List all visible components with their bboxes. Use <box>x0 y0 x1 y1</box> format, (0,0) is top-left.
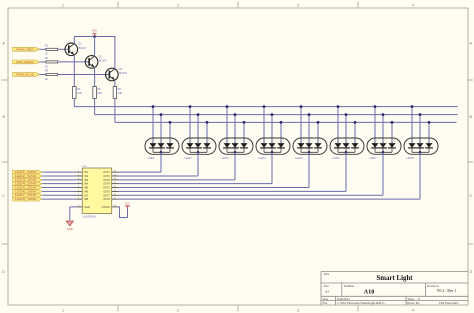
wire LED7 anode 3 drop <box>391 122 393 142</box>
node VCC junction <box>93 35 96 38</box>
svg-text:7: 7 <box>78 194 79 196</box>
svg-text:TK2 Electronics: TK2 Electronics <box>439 301 460 305</box>
resistor R1 <box>45 43 58 55</box>
wire LED5_EN to U1 pin 5 <box>42 187 76 189</box>
svg-text:Smart Light: Smart Light <box>376 275 413 282</box>
pin 12 stub <box>112 194 118 196</box>
svg-text:PWM_GREEN: PWM_GREEN <box>16 60 34 64</box>
node rail1 LED2 junction <box>189 105 192 108</box>
wire LED5 anode 3 drop <box>317 122 319 142</box>
svg-text:LED7_SINK: LED7_SINK <box>15 194 38 197</box>
pin 14 stub <box>112 186 118 188</box>
svg-text:6-09-2013: 6-09-2013 <box>337 297 350 301</box>
wire LED8 anode 2 drop <box>419 115 421 143</box>
wire R1 to Q1 base <box>58 48 69 50</box>
svg-text:COM D: COM D <box>102 206 110 209</box>
svg-text:IN5: IN5 <box>84 187 88 190</box>
transistor Q3 <box>106 67 128 81</box>
svg-text:4: 4 <box>412 308 414 312</box>
pin 5 stub <box>76 186 82 188</box>
node rail2 LED4 junction <box>271 113 274 116</box>
svg-text:IN7: IN7 <box>84 194 88 197</box>
node rail3 LED5 junction <box>317 121 320 124</box>
wire Q2 emitter to R5 <box>94 67 96 86</box>
wire LED1 anode 3 drop <box>169 122 171 142</box>
svg-text:U1: U1 <box>83 164 87 168</box>
svg-text:LED7: LED7 <box>370 156 377 160</box>
wire LED6_EN to U1 pin 6 <box>42 190 76 192</box>
node rail3 LED2 junction <box>206 121 209 124</box>
svg-text:2: 2 <box>177 3 179 7</box>
svg-text:2: 2 <box>347 140 348 142</box>
svg-text:14: 14 <box>114 186 116 188</box>
svg-text:Size: Size <box>324 284 330 288</box>
wire LED2 anode 1 drop <box>189 107 191 143</box>
LED LED2 <box>182 138 216 160</box>
wire LED1_EN to U1 pin 1 <box>42 171 76 173</box>
svg-text:3: 3 <box>356 140 357 142</box>
svg-text:BC547: BC547 <box>119 71 127 75</box>
svg-text:2: 2 <box>310 140 311 142</box>
LED LED1 <box>145 138 179 160</box>
svg-text:3: 3 <box>393 140 394 142</box>
connector PWM_GREEN <box>13 60 40 64</box>
LED LED5 <box>293 138 327 160</box>
svg-text:3: 3 <box>245 140 246 142</box>
svg-text:15: 15 <box>114 182 116 184</box>
LED LED6 <box>330 138 364 160</box>
wire VCC top rail <box>74 36 115 38</box>
svg-text:Revision: Revision <box>427 284 438 288</box>
wire LED2 cathode to OUT2 <box>118 152 198 176</box>
svg-text:1: 1 <box>62 3 64 7</box>
wire LED7 anode 2 drop <box>382 115 384 143</box>
wire LED3 anode 1 drop <box>226 107 228 143</box>
pin 16 stub <box>112 178 118 180</box>
svg-text:OUT7: OUT7 <box>103 194 110 197</box>
svg-text:GND: GND <box>84 206 90 209</box>
svg-text:LED2_SINK: LED2_SINK <box>15 175 38 178</box>
wire LED2_EN to U1 pin 2 <box>42 175 76 177</box>
power VCC at COM <box>125 201 131 208</box>
svg-text:3: 3 <box>208 140 209 142</box>
connector LED5_EN <box>13 186 43 190</box>
svg-text:Title: Title <box>324 272 330 276</box>
connector PWM_RED <box>13 47 40 51</box>
svg-text:10R: 10R <box>77 91 82 95</box>
svg-text:R1: R1 <box>45 43 49 47</box>
wire blue anode rail <box>115 121 457 123</box>
wire LED1 anode 1 drop <box>152 107 154 143</box>
svg-text:Date: Date <box>323 297 329 301</box>
pin 17 stub <box>112 174 118 176</box>
transistor Q1 <box>65 42 87 56</box>
connector LED7_EN <box>13 193 43 197</box>
wire LED8 anode 3 drop <box>428 122 430 142</box>
title block <box>321 272 468 306</box>
wire Q1 emitter to R4 <box>73 55 75 87</box>
pin 11 stub <box>112 197 118 199</box>
wire U1 GND to ground <box>70 207 77 221</box>
svg-text:R3: R3 <box>45 69 49 73</box>
pin 3 stub <box>76 178 82 180</box>
node rail1 LED7 junction <box>374 105 377 108</box>
node rail3 LED1 junction <box>169 121 172 124</box>
node rail3 LED6 junction <box>354 121 357 124</box>
svg-text:4: 4 <box>412 3 414 7</box>
wire PWM_GREEN to R2 <box>40 61 47 63</box>
svg-text:Q3: Q3 <box>119 67 123 71</box>
svg-text:ULN2803A: ULN2803A <box>83 214 96 218</box>
wire U1 COM D to VCC <box>118 207 128 218</box>
pin 2 stub <box>76 174 82 176</box>
connector LED4_EN <box>13 182 43 186</box>
svg-text:LED8: LED8 <box>407 156 414 160</box>
svg-text:2: 2 <box>421 140 422 142</box>
connector LED6_EN <box>13 190 43 194</box>
svg-text:of: of <box>418 297 421 301</box>
pin 8 stub <box>76 197 82 199</box>
node rail3 LED3 junction <box>243 121 246 124</box>
wire R5 to bus rail 2 <box>94 99 96 115</box>
svg-text:3: 3 <box>430 140 431 142</box>
svg-text:IN4: IN4 <box>84 183 88 186</box>
svg-text:3: 3 <box>282 140 283 142</box>
wire LED4 anode 3 drop <box>280 122 282 142</box>
svg-text:IN1: IN1 <box>84 171 88 174</box>
svg-text:VCC: VCC <box>92 30 97 33</box>
wire LED3_EN to U1 pin 3 <box>42 179 76 181</box>
svg-text:1K: 1K <box>45 77 48 81</box>
svg-text:A10: A10 <box>364 288 375 295</box>
node rail3 LED7 junction <box>391 121 394 124</box>
svg-text:9: 9 <box>78 205 79 207</box>
svg-text:12: 12 <box>114 194 116 196</box>
wire LED3 cathode to OUT3 <box>118 152 235 180</box>
wire LED5 anode 2 drop <box>308 115 310 143</box>
svg-text:OUT8: OUT8 <box>103 198 110 201</box>
svg-text:R5: R5 <box>97 87 101 91</box>
svg-text:2: 2 <box>199 140 200 142</box>
svg-text:C:\TK2 Electronics\SmartLight-: C:\TK2 Electronics\SmartLight-DALI\.. <box>337 301 386 305</box>
resistor R2 <box>45 56 58 68</box>
svg-text:R2: R2 <box>45 56 49 60</box>
wire LED2 anode 2 drop <box>197 115 199 143</box>
resistor R6 <box>113 87 122 99</box>
node rail1 LED1 junction <box>152 105 155 108</box>
node rail1 LED5 junction <box>300 105 303 108</box>
wire LED7_EN to U1 pin 7 <box>42 194 76 196</box>
svg-text:5: 5 <box>78 186 79 188</box>
wire LED4_EN to U1 pin 4 <box>42 183 76 185</box>
wire LED5 anode 1 drop <box>300 107 302 143</box>
resistor R4 <box>73 87 82 99</box>
svg-text:LED5_SINK: LED5_SINK <box>15 186 38 189</box>
wire green anode rail <box>95 114 458 116</box>
pin 13 stub <box>112 190 118 192</box>
svg-text:2: 2 <box>177 308 179 312</box>
svg-text:2: 2 <box>273 140 274 142</box>
svg-text:OUT3: OUT3 <box>103 179 110 182</box>
svg-text:R4: R4 <box>77 87 81 91</box>
node rail2 LED6 junction <box>345 113 348 116</box>
connector LED2_EN <box>13 174 43 178</box>
wire LED4 cathode to OUT4 <box>118 152 272 183</box>
svg-text:Sheet: Sheet <box>408 297 415 301</box>
svg-text:LED3: LED3 <box>222 156 229 160</box>
transistor Q2 <box>85 54 107 68</box>
wire R6 to bus rail 3 <box>114 99 116 123</box>
node rail2 LED1 junction <box>160 113 163 116</box>
ground GND <box>66 221 73 231</box>
wire PWM_BLUE to R3 <box>40 74 47 76</box>
svg-text:1: 1 <box>154 140 155 142</box>
svg-text:6: 6 <box>78 190 79 192</box>
connector LED8_EN <box>13 197 43 201</box>
resistor R3 <box>45 69 58 81</box>
wire LED8_EN to U1 pin 8 <box>42 198 76 200</box>
wire LED5 cathode to OUT5 <box>118 152 309 187</box>
pin 7 stub <box>76 194 82 196</box>
pin 6 stub <box>76 190 82 192</box>
wire R2 to Q2 base <box>58 61 89 63</box>
LED LED8 <box>404 138 438 160</box>
svg-text:V0.2 - Rev 1: V0.2 - Rev 1 <box>437 289 457 293</box>
svg-text:LED1_SINK: LED1_SINK <box>15 171 38 174</box>
svg-text:BC547: BC547 <box>79 46 87 50</box>
wire LED4 anode 1 drop <box>263 107 265 143</box>
IC U1 ULN2803A body <box>82 164 111 218</box>
wire LED7 anode 1 drop <box>374 107 376 143</box>
wire LED3 anode 3 drop <box>243 122 245 142</box>
svg-text:3: 3 <box>171 140 172 142</box>
svg-text:LED6_SINK: LED6_SINK <box>15 190 38 193</box>
svg-text:OUT1: OUT1 <box>103 171 110 174</box>
wire LED2 anode 3 drop <box>206 122 208 142</box>
wire Q3 collector to rail <box>114 37 116 70</box>
svg-text:PWM_RED: PWM_RED <box>16 47 34 51</box>
svg-text:Q1: Q1 <box>78 42 82 46</box>
wire LED1 cathode to OUT1 <box>118 152 161 172</box>
svg-text:IN6: IN6 <box>84 190 88 193</box>
wire LED6 anode 1 drop <box>337 107 339 143</box>
svg-text:Number: Number <box>344 284 354 288</box>
pin 4 stub <box>76 182 82 184</box>
svg-text:OUT6: OUT6 <box>103 190 110 193</box>
svg-text:13: 13 <box>114 190 116 192</box>
node rail2 LED2 junction <box>197 113 200 116</box>
svg-text:2: 2 <box>78 174 79 176</box>
svg-text:Q2: Q2 <box>98 54 102 58</box>
svg-text:LED5: LED5 <box>296 156 303 160</box>
svg-text:17: 17 <box>114 174 116 176</box>
svg-text:1: 1 <box>302 140 303 142</box>
svg-text:VCC: VCC <box>125 201 131 205</box>
wire LED8 cathode to OUT8 <box>118 152 420 199</box>
wire PWM_RED to R1 <box>40 48 47 50</box>
svg-text:1: 1 <box>62 308 64 312</box>
svg-text:2: 2 <box>162 140 163 142</box>
wire Q1 collector to rail <box>73 37 75 44</box>
svg-text:8: 8 <box>78 197 79 199</box>
connector LED1_EN <box>13 170 43 174</box>
wire LED3 anode 2 drop <box>234 115 236 143</box>
svg-text:LED4_SINK: LED4_SINK <box>15 183 38 186</box>
wire red anode rail <box>74 106 457 108</box>
svg-text:OUT4: OUT4 <box>103 183 110 186</box>
node rail1 LED8 junction <box>411 105 414 108</box>
svg-text:GND: GND <box>67 227 73 231</box>
svg-text:LED1: LED1 <box>148 156 155 160</box>
svg-text:4: 4 <box>78 182 79 184</box>
wire Q2 collector to rail <box>94 37 96 57</box>
pin 1 stub <box>76 170 82 172</box>
wire R4 to bus rail 1 <box>73 99 75 107</box>
wire LED6 anode 2 drop <box>345 115 347 143</box>
svg-text:LED3_SINK: LED3_SINK <box>15 179 38 182</box>
svg-text:LED2: LED2 <box>185 156 192 160</box>
svg-text:1: 1 <box>228 140 229 142</box>
svg-text:Drawn By:: Drawn By: <box>407 301 420 305</box>
pin 9 GND stub <box>76 205 82 207</box>
svg-text:1: 1 <box>265 140 266 142</box>
wire LED6 anode 3 drop <box>354 122 356 142</box>
svg-text:LED6: LED6 <box>333 156 340 160</box>
connector LED3_EN <box>13 178 43 182</box>
svg-text:3: 3 <box>78 178 79 180</box>
pin 15 stub <box>112 182 118 184</box>
svg-text:IN2: IN2 <box>84 175 88 178</box>
svg-text:OUT2: OUT2 <box>103 175 110 178</box>
svg-text:R6: R6 <box>118 87 122 91</box>
node rail3 LED8 junction <box>428 121 431 124</box>
svg-text:A4: A4 <box>325 290 329 294</box>
node rail2 LED3 junction <box>234 113 237 116</box>
svg-text:2: 2 <box>384 140 385 142</box>
svg-text:10R: 10R <box>118 91 123 95</box>
svg-text:10R: 10R <box>97 91 102 95</box>
wire LED1 anode 2 drop <box>160 115 162 143</box>
wire LED6 cathode to OUT6 <box>118 152 346 191</box>
resistor R5 <box>93 87 102 99</box>
svg-text:3: 3 <box>297 3 299 7</box>
pin 10 COM stub <box>112 205 118 207</box>
svg-text:1K: 1K <box>45 52 48 56</box>
node rail1 LED3 junction <box>226 105 229 108</box>
wire LED7 cathode to OUT7 <box>118 152 383 195</box>
node rail2 LED5 junction <box>308 113 311 116</box>
svg-text:16: 16 <box>114 178 116 180</box>
svg-text:18: 18 <box>114 170 116 172</box>
svg-text:1: 1 <box>413 140 414 142</box>
svg-text:1: 1 <box>191 140 192 142</box>
svg-text:OUT5: OUT5 <box>103 187 110 190</box>
node rail3 LED4 junction <box>280 121 283 124</box>
node rail2 LED7 junction <box>382 113 385 116</box>
power VCC <box>92 30 97 37</box>
svg-text:IN3: IN3 <box>84 179 88 182</box>
svg-text:PWM_BLUE: PWM_BLUE <box>16 73 34 77</box>
LED LED4 <box>256 138 290 160</box>
svg-text:3: 3 <box>297 308 299 312</box>
svg-text:1K: 1K <box>45 64 48 68</box>
svg-text:3: 3 <box>319 140 320 142</box>
node rail1 LED4 junction <box>263 105 266 108</box>
wire Q3 emitter to R6 <box>114 80 116 87</box>
svg-text:1: 1 <box>376 140 377 142</box>
pin 18 stub <box>112 170 118 172</box>
svg-text:1: 1 <box>78 170 79 172</box>
svg-text:File: File <box>323 301 328 305</box>
wire R3 to Q3 base <box>58 74 109 76</box>
LED LED7 <box>367 138 401 160</box>
svg-text:LED4: LED4 <box>259 156 266 160</box>
LED LED3 <box>219 138 253 160</box>
svg-text:LED8_SINK: LED8_SINK <box>15 198 38 201</box>
svg-text:IN8: IN8 <box>84 198 88 201</box>
wire LED4 anode 2 drop <box>271 115 273 143</box>
wire LED8 anode 1 drop <box>411 107 413 143</box>
svg-text:BC547: BC547 <box>99 59 107 63</box>
svg-text:10: 10 <box>114 205 116 207</box>
svg-text:2: 2 <box>236 140 237 142</box>
node rail2 LED8 junction <box>419 113 422 116</box>
svg-text:11: 11 <box>114 197 116 199</box>
node rail1 LED6 junction <box>337 105 340 108</box>
svg-text:1: 1 <box>339 140 340 142</box>
connector PWM_BLUE <box>13 73 40 77</box>
